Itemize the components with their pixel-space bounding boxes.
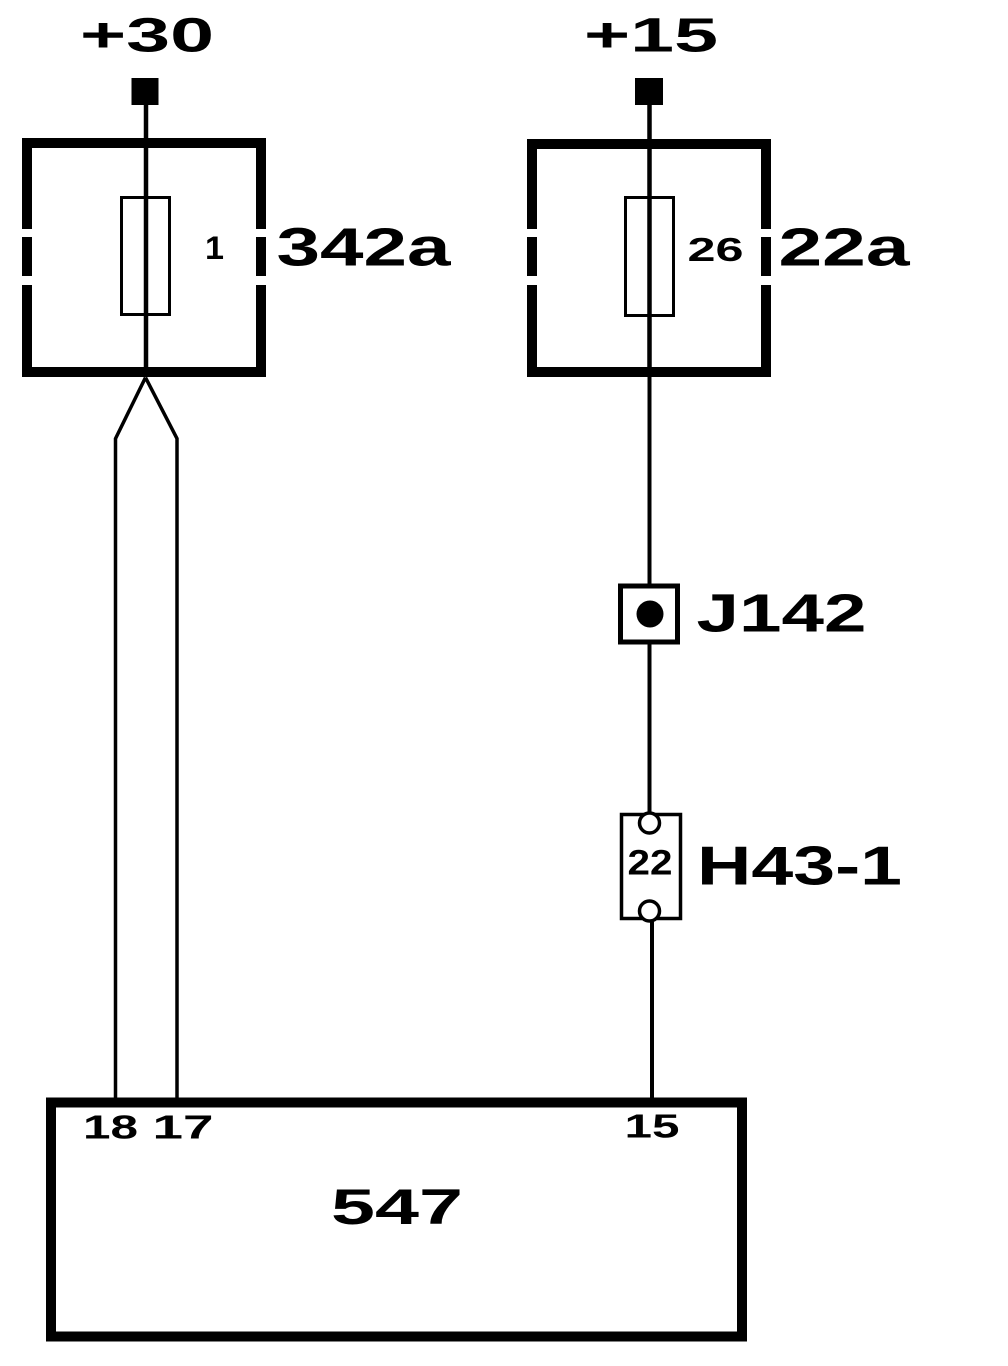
svg-text:H43-1: H43-1 [697, 835, 902, 897]
fuse box 342a border [22, 138, 266, 377]
wire +30 to fuse box S1 [144, 104, 149, 140]
svg-text:26: 26 [688, 232, 744, 269]
svg-text:+15: +15 [584, 10, 718, 63]
wire H43-1 to control unit 547 [650, 920, 654, 1098]
connector H43-1 body [622, 815, 681, 919]
svg-text:1: 1 [205, 230, 224, 266]
wire J142 to H43-1 [648, 644, 652, 813]
svg-text:18: 18 [83, 1110, 138, 1147]
svg-text:15: 15 [625, 1109, 680, 1146]
svg-text:17: 17 [153, 1110, 214, 1147]
fuse 26 symbol [626, 198, 674, 316]
connector pin circle bottom [640, 901, 660, 921]
terminal square +15 [635, 78, 663, 105]
terminal square +30 [132, 78, 159, 105]
control unit 547 box [51, 1103, 742, 1337]
junction box J142 [621, 586, 678, 642]
thick wire taper right leg [146, 378, 178, 1099]
svg-text:342a: 342a [277, 219, 453, 278]
svg-text:547: 547 [331, 1179, 463, 1235]
thick wire taper left leg [116, 378, 146, 1099]
wire fuse 26 to junction J142 [648, 377, 652, 585]
wire through fuse 26 [647, 149, 652, 367]
wire through fuse 1 [144, 148, 149, 367]
svg-text:J142: J142 [697, 584, 867, 644]
fuse box 22a border [527, 139, 771, 377]
connector pin circle top [640, 813, 660, 833]
fuse 1 symbol [122, 198, 170, 315]
wire +15 to fuse box S26 [647, 104, 652, 141]
junction dot J142 [637, 601, 664, 628]
svg-text:+30: +30 [80, 10, 214, 63]
svg-text:22a: 22a [779, 219, 912, 278]
svg-text:22: 22 [628, 844, 673, 883]
